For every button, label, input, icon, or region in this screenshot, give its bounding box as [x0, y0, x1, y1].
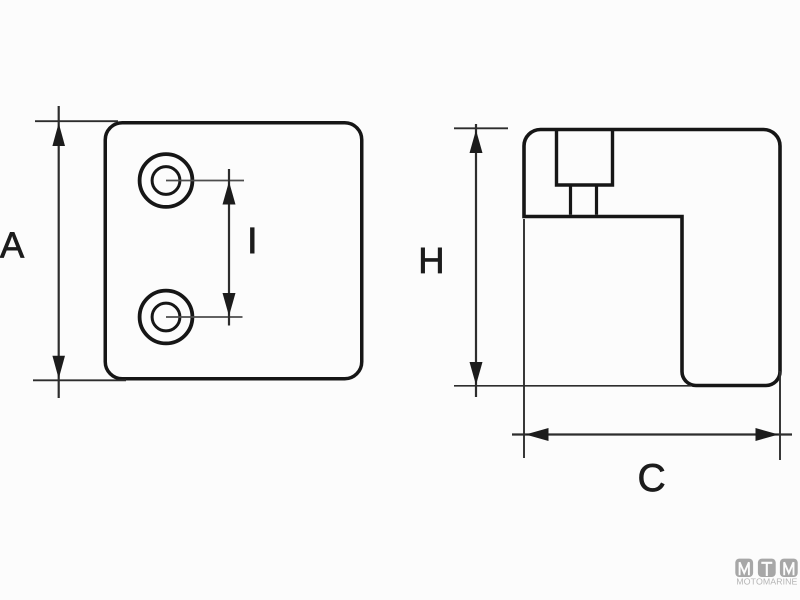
- label A: [0, 232, 24, 257]
- dim C extension line left: [523, 219, 525, 458]
- logo square M2: [780, 559, 798, 577]
- logo letter T: [761, 563, 772, 576]
- dim H extension line top: [454, 127, 508, 129]
- dim A line: [58, 106, 60, 398]
- dim A arrow top: [52, 123, 65, 146]
- dim C extension line right: [779, 371, 781, 460]
- logo letter M1: [740, 562, 749, 575]
- centerline upper hole: [166, 180, 244, 182]
- screw shank lines: [571, 186, 597, 215]
- logo wordmark MOTOMARINE: [737, 578, 797, 584]
- dim A arrow bottom: [52, 356, 65, 379]
- dim C line: [512, 433, 792, 435]
- dim I line: [228, 169, 230, 326]
- dim H arrow top: [470, 130, 483, 153]
- dim H extension line bottom: [454, 385, 691, 387]
- dim H line: [475, 124, 477, 397]
- dim C arrow left: [526, 428, 549, 441]
- hole H1 inner circle: [152, 167, 180, 195]
- hole H2 outer circle: [140, 291, 193, 344]
- label C: [640, 464, 665, 492]
- logo square M1: [735, 559, 753, 577]
- hole H1 outer circle: [140, 154, 193, 207]
- dim I arrow top: [223, 182, 236, 205]
- dim H arrow bottom: [470, 362, 483, 385]
- dim C arrow right: [756, 428, 779, 441]
- label I: [251, 228, 254, 253]
- counterbore rectangle: [557, 130, 613, 185]
- dim A extension line top: [35, 120, 118, 122]
- plate outline (front view): [105, 123, 362, 379]
- label H: [421, 248, 441, 273]
- side profile outline: [524, 130, 780, 386]
- dim A extension line bottom: [33, 379, 126, 381]
- dim I arrow bottom: [223, 293, 236, 316]
- logo square T: [758, 559, 776, 577]
- centerline lower hole: [166, 316, 243, 318]
- hole H2 inner circle: [152, 303, 180, 331]
- logo letter M2: [784, 562, 793, 575]
